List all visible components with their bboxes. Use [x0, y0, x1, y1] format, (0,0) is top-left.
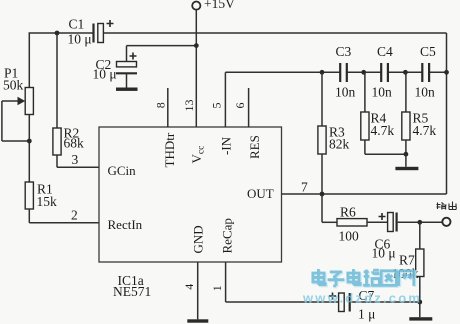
node junction wiper/P1 bottom — [27, 139, 32, 144]
svg-text:ReCap: ReCap — [219, 218, 234, 253]
terminal +15V — [192, 0, 235, 11]
wire R4/R5 bottoms — [365, 153, 406, 155]
svg-text:82k: 82k — [329, 137, 350, 152]
capacitor C5 — [415, 44, 437, 100]
svg-text:10 μ: 10 μ — [372, 246, 396, 261]
wire R2 to pin 3 GCin — [57, 152, 99, 167]
svg-text:C3: C3 — [336, 44, 352, 59]
pin 6 stub RES — [233, 88, 249, 127]
node junction OUT/R3/R6 — [320, 192, 325, 197]
wire P1 wiper feedback — [2, 101, 29, 141]
svg-text:8: 8 — [154, 102, 168, 108]
wire R1 to pin 2 RectIn — [29, 208, 99, 223]
ground below R4/R5 — [395, 154, 418, 170]
svg-text:THDtr: THDtr — [162, 132, 177, 167]
wire P1 top lead — [28, 33, 30, 88]
svg-text:10n: 10n — [372, 85, 393, 100]
capacitor C2 — [93, 53, 138, 88]
svg-text:4.7k: 4.7k — [413, 123, 437, 138]
svg-text:GCin: GCin — [108, 163, 137, 178]
node junction R5 top — [403, 70, 408, 75]
svg-text:+15V: +15V — [204, 0, 235, 11]
wire pin 1 ReCap down and right to C7 — [210, 262, 339, 302]
svg-text:R6: R6 — [340, 205, 356, 220]
svg-text:3: 3 — [72, 152, 79, 167]
wire top rail from P1 top to right rail (C1 in series) — [29, 32, 447, 34]
svg-text:C5: C5 — [420, 44, 436, 59]
watermark 电子电路图网 — [313, 269, 415, 287]
svg-text:15k: 15k — [37, 194, 58, 209]
svg-text:2: 2 — [71, 208, 78, 223]
svg-text:-IN: -IN — [219, 136, 234, 155]
wire right rail down to OUT line — [446, 33, 448, 194]
wire OUT pin 7 to right rail — [282, 180, 447, 195]
resistor R3 — [318, 72, 350, 194]
node junction R7 top — [417, 220, 422, 225]
wire C2 branch to Vcc rail — [127, 46, 197, 62]
ground below C2 — [116, 88, 138, 91]
svg-text:NE571: NE571 — [113, 284, 151, 299]
svg-text:5: 5 — [210, 103, 224, 109]
resistor R5 — [402, 72, 437, 154]
svg-text:GND: GND — [191, 225, 206, 253]
wire Vcc: +15V terminal down to pin 13 — [195, 10, 197, 127]
svg-text:68k: 68k — [64, 136, 85, 151]
svg-text:10n: 10n — [415, 85, 436, 100]
svg-text:6: 6 — [233, 103, 247, 109]
svg-text:C4: C4 — [377, 44, 393, 59]
capacitor C6 — [372, 213, 443, 261]
resistor R2 — [53, 126, 84, 156]
svg-text:4: 4 — [182, 284, 196, 290]
node junction R3 top — [320, 70, 325, 75]
svg-text:50k: 50k — [3, 78, 24, 93]
svg-text:10 μ: 10 μ — [68, 32, 92, 47]
svg-text:Vcc: Vcc — [189, 146, 207, 164]
capacitor C4 — [372, 44, 394, 100]
node junction R5 ground — [404, 152, 409, 157]
ground below pin 4 — [187, 319, 208, 322]
wire OUT down to R6 branch — [322, 194, 337, 222]
op-amp IC1a NE571 body — [99, 127, 282, 299]
potentiometer P1 — [2, 66, 34, 115]
capacitor C3 — [335, 44, 356, 100]
svg-text:RES: RES — [247, 135, 262, 159]
node junction R7/C7/ground — [417, 300, 422, 305]
node junction R4 top — [361, 70, 366, 75]
svg-text:1 μ: 1 μ — [358, 307, 375, 322]
svg-text:4.7k: 4.7k — [371, 123, 395, 138]
capacitor C1 — [68, 17, 114, 47]
svg-text:OUT: OUT — [247, 186, 274, 201]
resistor R1 — [25, 182, 57, 210]
svg-text:100: 100 — [339, 229, 360, 244]
wire P1 bottom lead — [28, 115, 30, 183]
wire pin 4 GND to ground — [182, 262, 198, 319]
node junction right rail — [444, 70, 449, 75]
svg-text:1: 1 — [210, 285, 224, 291]
svg-text:10n: 10n — [335, 85, 356, 100]
resistor R6 — [337, 205, 388, 244]
svg-text:RectIn: RectIn — [108, 217, 143, 232]
svg-text:13: 13 — [182, 100, 196, 112]
label 输出 (output) — [437, 202, 457, 210]
pin 5 wire -IN up and right — [210, 72, 447, 127]
svg-text:www.dzdz.com: www.dzdz.com — [302, 291, 422, 306]
svg-text:7: 7 — [301, 180, 308, 195]
wire R2 top lead — [56, 33, 58, 128]
node junction Vcc/C2 — [194, 43, 199, 48]
resistor R4 — [361, 72, 395, 154]
svg-text:C1: C1 — [69, 17, 85, 32]
capacitor C7 — [329, 288, 420, 322]
terminal output — [442, 218, 450, 226]
resistor R7 — [392, 222, 424, 302]
node junction R2 top — [55, 31, 60, 36]
svg-text:10 μ: 10 μ — [93, 67, 117, 82]
ground below R7 — [409, 302, 432, 321]
pin 8 stub THDtr — [154, 88, 168, 127]
